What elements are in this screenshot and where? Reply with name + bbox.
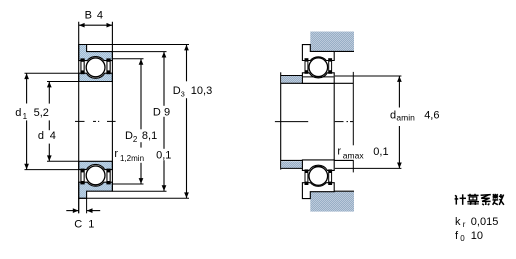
right bearing lower section (mirror) [302, 160, 334, 199]
line above upper shoulder abutment [281, 75, 303, 77]
right bearing inner ring, upper [302, 73, 334, 84]
svg-text:d: d [390, 109, 396, 121]
B dimension line [79, 24, 113, 26]
D3 dimension line [186, 45, 188, 199]
svg-text:r: r [463, 220, 466, 229]
shaft surface upper line [281, 82, 354, 84]
svg-text:2: 2 [133, 135, 138, 144]
extension line D3 bottom (flange bottom) [79, 197, 189, 199]
outer ring with flange, lower [302, 183, 334, 199]
inner ring, upper section [79, 73, 113, 81]
svg-text:amin: amin [396, 113, 415, 123]
shaft surface lower line [281, 159, 354, 161]
extension line D3 top (flange top) [79, 44, 189, 46]
svg-text:B: B [85, 10, 92, 22]
shield left, lower [305, 169, 309, 185]
shield right, upper section [106, 58, 110, 74]
center line of right drawing [275, 121, 353, 123]
right bearing ball, upper [309, 58, 328, 77]
svg-text:9: 9 [164, 107, 170, 119]
d dimension line [48, 82, 50, 161]
right bearing face line continuation through shaft region [333, 83, 335, 160]
housing seat line lower [310, 190, 354, 192]
right bearing shield right, upper [328, 58, 332, 74]
extension line d1 bottom (shoulder) [25, 169, 79, 171]
shaft end break line [352, 72, 354, 172]
svg-text:D: D [173, 85, 181, 97]
right bearing outer ring with flange, upper [302, 45, 334, 61]
shaft shoulder abutment lower (grey) [281, 161, 302, 168]
svg-text:4: 4 [50, 130, 56, 142]
shaft shoulder face line [280, 72, 282, 169]
D dimension line [163, 52, 165, 192]
housing seat line upper [310, 50, 354, 52]
svg-text:0,015: 0,015 [471, 216, 499, 228]
char 系 [481, 194, 491, 197]
svg-text:1: 1 [88, 219, 94, 231]
shield right, lower [328, 169, 332, 185]
shield left, lower section [80, 169, 84, 185]
ball, upper section [86, 58, 105, 77]
svg-text:4: 4 [97, 10, 103, 22]
svg-text:C: C [74, 219, 82, 231]
svg-text:0: 0 [460, 234, 465, 243]
d1 dimension line [26, 73, 28, 169]
extension line d1 top (shoulder) [25, 72, 79, 74]
svg-text:10,3: 10,3 [191, 85, 212, 97]
right face line [111, 22, 113, 191]
svg-text:k: k [455, 216, 461, 228]
svg-text:d: d [38, 130, 44, 142]
right bearing inner ring recess line, lower [303, 165, 334, 167]
outer ring with flange, upper section [79, 45, 113, 61]
svg-text:D: D [153, 107, 161, 119]
C arrows [66, 210, 78, 212]
extension line d top (bore) [47, 81, 79, 83]
svg-text:10: 10 [471, 230, 483, 242]
flange edge extension of left face [78, 198, 80, 213]
svg-text:d: d [15, 107, 21, 119]
da dimension line [398, 76, 400, 168]
ball, lower [309, 167, 328, 186]
right bearing inner ring recess line, upper [303, 76, 334, 78]
inner ring, lower section [79, 161, 113, 169]
extension line da lower [335, 167, 402, 169]
extension line da upper [335, 75, 402, 77]
svg-text:1,2min: 1,2min [120, 154, 144, 163]
extension line D top (outer diameter) [112, 51, 166, 53]
svg-text:4,6: 4,6 [424, 109, 439, 121]
shaft shoulder abutment upper (grey) [281, 76, 302, 83]
housing abutment upper (grey) [310, 32, 354, 52]
housing abutment lower (grey) [310, 192, 354, 212]
svg-text:f: f [455, 230, 459, 242]
shield right, lower section [106, 169, 110, 185]
svg-text:r: r [337, 145, 341, 157]
svg-text:amax: amax [343, 150, 365, 160]
svg-text:1: 1 [23, 112, 28, 121]
extension line D bottom [112, 190, 166, 192]
shield left, upper section [80, 58, 84, 74]
C extension line (flange edge) [86, 198, 88, 213]
extension line D2 bottom [112, 183, 143, 185]
extension line D2 top (shield) [112, 58, 143, 60]
lower section (mirror) [79, 161, 113, 198]
extension line d bottom (bore) [47, 160, 79, 162]
right bearing shield left, upper [305, 58, 309, 74]
char 计 [455, 196, 457, 205]
svg-text:D: D [125, 130, 133, 142]
svg-text:r: r [114, 148, 118, 160]
D2 dimension line [140, 59, 142, 184]
svg-text:3: 3 [181, 89, 185, 98]
chinese label 计算系数 (drawn strokes) [455, 194, 504, 205]
svg-text:0,1: 0,1 [156, 150, 171, 162]
inner ring, lower [302, 160, 334, 171]
ball, lower section [86, 166, 105, 185]
center line of left drawing [75, 120, 116, 122]
char 数 [494, 194, 496, 199]
svg-text:5,2: 5,2 [34, 107, 49, 119]
outer ring with flange, lower section [79, 182, 113, 198]
char 算 [468, 194, 479, 196]
line below lower shoulder abutment [281, 167, 303, 169]
left face line [78, 22, 80, 214]
svg-text:8,1: 8,1 [142, 130, 157, 142]
svg-text:0,1: 0,1 [373, 146, 388, 158]
